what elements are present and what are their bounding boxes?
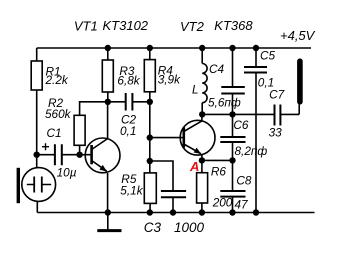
wire R2 bottom lead (79, 145, 81, 154)
wire VT1 collector (107, 102, 109, 139)
wire R6 bottom lead (201, 203, 203, 213)
capacitor C5 (255, 48, 257, 67)
svg-text:L: L (192, 83, 199, 97)
wire base tap to VT2 (150, 137, 184, 139)
resistor R4 (144, 60, 155, 92)
wire microphone bottom lead (36, 201, 38, 212)
wire node A horizontal (202, 159, 233, 161)
capacitor C8 (232, 160, 234, 191)
svg-text:1000: 1000 (174, 220, 205, 235)
svg-text:VT2: VT2 (180, 19, 205, 34)
wire C3 bottom lead (172, 197, 174, 212)
wire R4 bottom / divider column (149, 92, 151, 173)
svg-text:6,8k: 6,8k (117, 74, 140, 88)
svg-text:KT368: KT368 (214, 18, 253, 33)
svg-text:C3: C3 (144, 220, 162, 235)
antenna (298, 104, 300, 114)
wire bottom rail (37, 212, 314, 214)
wire R3 top lead (107, 48, 109, 60)
svg-text:2.2k: 2.2k (45, 73, 69, 87)
wire top supply rail (37, 47, 311, 49)
capacitor C1 (37, 154, 55, 156)
resistor R1 (31, 61, 42, 90)
wire R2 top lead to node (80, 102, 108, 116)
resistor R3 (102, 60, 113, 92)
microphone BM1 (22, 168, 56, 202)
capacitor C2 (108, 101, 150, 103)
svg-text:R6: R6 (211, 164, 227, 178)
wire VT2 emitter to node A (201, 155, 203, 161)
svg-text:A: A (189, 159, 199, 174)
svg-text:C7: C7 (269, 88, 285, 102)
ground (107, 213, 109, 230)
svg-text:KT3102: KT3102 (103, 18, 149, 33)
svg-text:VT1: VT1 (74, 19, 98, 34)
svg-text:C1: C1 (47, 126, 62, 140)
svg-text:47: 47 (235, 197, 249, 211)
svg-text:C5: C5 (260, 48, 276, 62)
svg-text:560k: 560k (45, 107, 72, 121)
wire VT1 emitter to ground rail (107, 173, 109, 213)
wire tank node horizontal (202, 113, 274, 115)
svg-text:8,2пф: 8,2пф (235, 144, 268, 158)
svg-text:3,9k: 3,9k (158, 73, 181, 87)
capacitor C6 (232, 114, 234, 137)
resistor R6 (197, 173, 208, 203)
wire tap to C3 (150, 161, 173, 191)
svg-text:33: 33 (269, 125, 283, 139)
svg-text:0,1: 0,1 (120, 124, 136, 138)
wire R4 top lead (149, 48, 151, 60)
svg-text:C4: C4 (209, 62, 225, 76)
transistor VT1 (85, 138, 120, 173)
svg-text:C6: C6 (233, 118, 249, 132)
transistor VT2 (180, 120, 215, 155)
svg-text:200: 200 (212, 195, 233, 209)
resistor R2 (74, 115, 85, 145)
wire VT2 collector (201, 114, 203, 121)
svg-text:5,6пф: 5,6пф (208, 96, 241, 110)
wire R3 bottom lead (107, 92, 109, 102)
svg-text:+4,5V: +4,5V (280, 28, 316, 43)
wire R6 top lead (201, 160, 203, 172)
wire R5 bottom lead (149, 203, 151, 212)
wire R1 bottom to microphone (36, 90, 38, 168)
capacitor C4 (232, 48, 234, 87)
wire C1 to VT1 base (62, 154, 92, 156)
svg-text:C8: C8 (236, 174, 252, 188)
svg-text:10µ: 10µ (57, 166, 77, 180)
inductor L (201, 48, 203, 64)
resistor R5 (144, 173, 156, 204)
capacitor C3 (161, 191, 186, 197)
wire left column R1 top lead (36, 48, 38, 61)
svg-text:5,1k: 5,1k (120, 184, 143, 198)
capacitor C7 (275, 105, 281, 126)
